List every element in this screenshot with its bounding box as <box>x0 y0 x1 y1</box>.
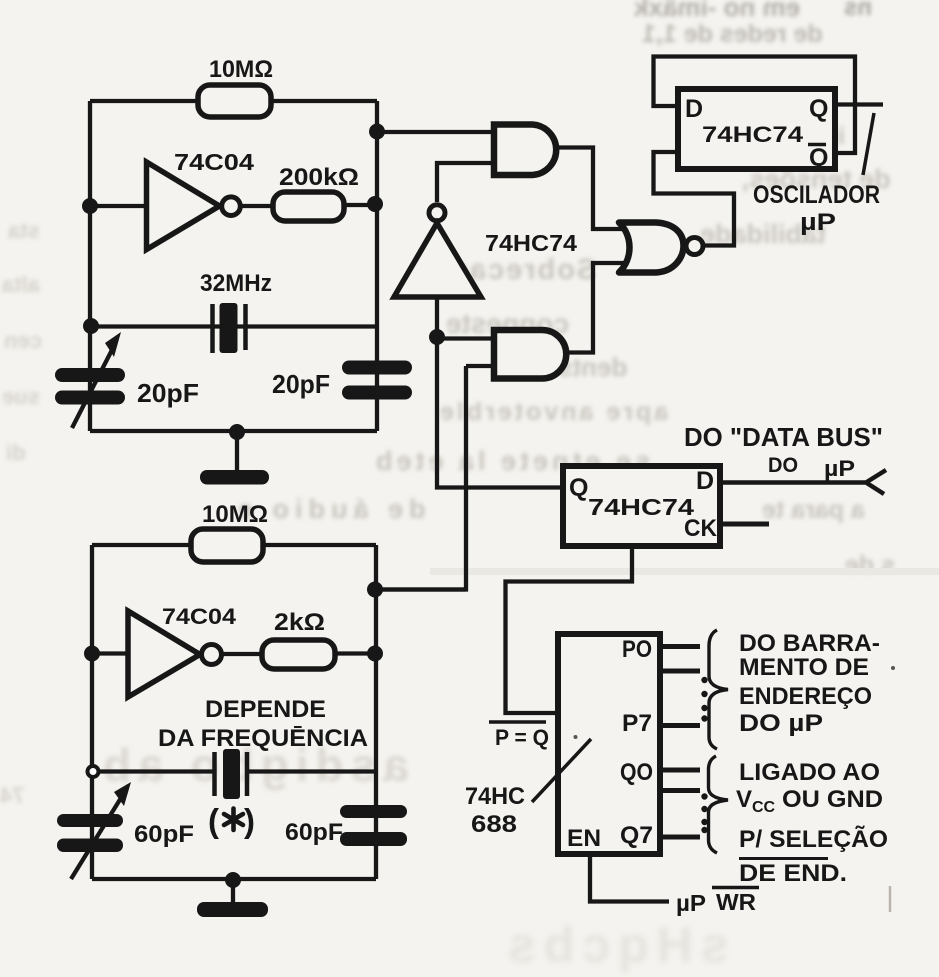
svg-text:P = Q: P = Q <box>495 725 549 750</box>
svg-text:P/ SELEÇÃO: P/ SELEÇÃO <box>739 825 888 853</box>
svg-text:µP: µP <box>800 209 836 236</box>
svg-text:OSCILADOR: OSCILADOR <box>753 181 880 209</box>
svg-text:D: D <box>685 95 703 123</box>
svg-text:DA FREQUĒNCIA: DA FREQUĒNCIA <box>158 725 368 752</box>
svg-text:74HC74: 74HC74 <box>485 230 577 256</box>
svg-text:688: 688 <box>471 811 517 838</box>
svg-text:Q: Q <box>809 95 828 123</box>
svg-text:DO BARRA-: DO BARRA- <box>739 630 880 657</box>
svg-text:74HC: 74HC <box>465 783 525 810</box>
svg-text:DO "DATA BUS": DO "DATA BUS" <box>684 422 883 452</box>
svg-text:20pF: 20pF <box>272 369 330 399</box>
svg-text:PO: PO <box>622 636 652 663</box>
svg-text:20pF: 20pF <box>137 378 199 408</box>
svg-text:MENTO DE: MENTO DE <box>739 654 869 681</box>
svg-text:DO µP: DO µP <box>739 710 823 737</box>
svg-text:74C04: 74C04 <box>174 149 254 175</box>
svg-text:LIGADO AO: LIGADO AO <box>739 759 880 786</box>
svg-text:10MΩ: 10MΩ <box>202 501 268 528</box>
svg-text:D: D <box>696 467 714 495</box>
svg-text:Q: Q <box>809 144 828 172</box>
svg-text:EN: EN <box>567 825 601 852</box>
svg-text:µP: µP <box>676 890 706 916</box>
svg-text:DE END.: DE END. <box>739 860 847 887</box>
svg-text:2kΩ: 2kΩ <box>274 609 325 636</box>
svg-text:OU GND: OU GND <box>782 786 883 813</box>
svg-text:10MΩ: 10MΩ <box>209 56 273 83</box>
svg-text:P7: P7 <box>622 710 652 737</box>
svg-text:µP: µP <box>824 456 855 481</box>
svg-text:74C04: 74C04 <box>162 604 237 629</box>
svg-text:V: V <box>736 786 752 813</box>
svg-text:DEPENDE: DEPENDE <box>205 696 326 723</box>
svg-text:): ) <box>244 802 255 839</box>
svg-text:QO: QO <box>620 759 653 786</box>
svg-text:60pF: 60pF <box>134 821 194 848</box>
svg-text:60pF: 60pF <box>285 819 343 846</box>
svg-text:200kΩ: 200kΩ <box>279 164 359 191</box>
svg-text:ENDEREÇO: ENDEREÇO <box>739 683 872 710</box>
svg-text:CK: CK <box>684 515 718 542</box>
svg-text:WR: WR <box>716 889 756 915</box>
svg-text:DO: DO <box>768 454 798 477</box>
svg-text:74HC74: 74HC74 <box>702 122 804 147</box>
svg-text:32MHz: 32MHz <box>200 270 272 297</box>
svg-text:(: ( <box>208 802 219 839</box>
svg-text:Q7: Q7 <box>620 822 653 849</box>
svg-text:CC: CC <box>752 799 776 816</box>
svg-text:Q: Q <box>569 474 588 502</box>
svg-text:74HC74: 74HC74 <box>588 494 694 520</box>
